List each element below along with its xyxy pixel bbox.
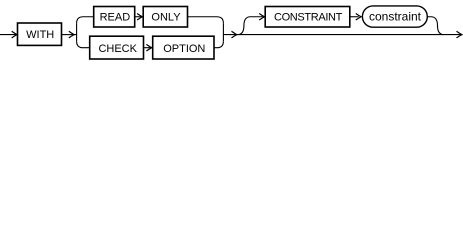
svg-text:OPTION: OPTION [163, 43, 205, 55]
svg-text:READ: READ [100, 12, 131, 24]
svg-text:CHECK: CHECK [98, 43, 137, 55]
arrowhead into OPTION [146, 44, 151, 51]
svg-text:CONSTRAINT: CONSTRAINT [274, 12, 343, 24]
box CONSTRAINT [265, 7, 350, 28]
wire: split S-curve up to CONSTRAINT row [237, 17, 263, 35]
wire: split vertical [76, 23, 78, 41]
arrowhead after WITH [69, 31, 74, 38]
box WITH [18, 23, 62, 45]
arrowhead into constraint oval [356, 13, 361, 20]
box READ [94, 7, 135, 28]
box ONLY [143, 7, 187, 28]
svg-text:WITH: WITH [26, 29, 54, 41]
wire: CHECK to OPTION [144, 47, 152, 49]
wire: split curve down to CHECK row [77, 41, 90, 48]
box OPTION [153, 36, 214, 59]
wire: WITH to split point [62, 34, 77, 36]
box CHECK [90, 36, 144, 59]
wire: main line from merge to right edge [223, 34, 462, 36]
wire: merge vertical [222, 23, 224, 41]
arrowhead at right edge exit [457, 31, 462, 38]
wire: split curve up to READ row [77, 17, 94, 24]
arrowhead into ONLY [137, 13, 142, 20]
wire: OPTION to merge curve [214, 41, 223, 48]
svg-text:ONLY: ONLY [151, 12, 181, 24]
wire: oval exit S-curve down to main line [427, 17, 444, 35]
wire: entry line into WITH [0, 34, 16, 36]
wire: ONLY to merge curve [188, 17, 224, 24]
oval constraint [362, 6, 427, 27]
wire: CONSTRAINT to constraint oval [350, 16, 359, 18]
svg-text:constraint: constraint [369, 9, 422, 23]
arrowhead into CONSTRAINT [259, 13, 264, 20]
arrowhead into WITH [12, 31, 17, 38]
arrowhead on main line after merge [232, 31, 237, 38]
wire: READ to ONLY [135, 16, 143, 18]
